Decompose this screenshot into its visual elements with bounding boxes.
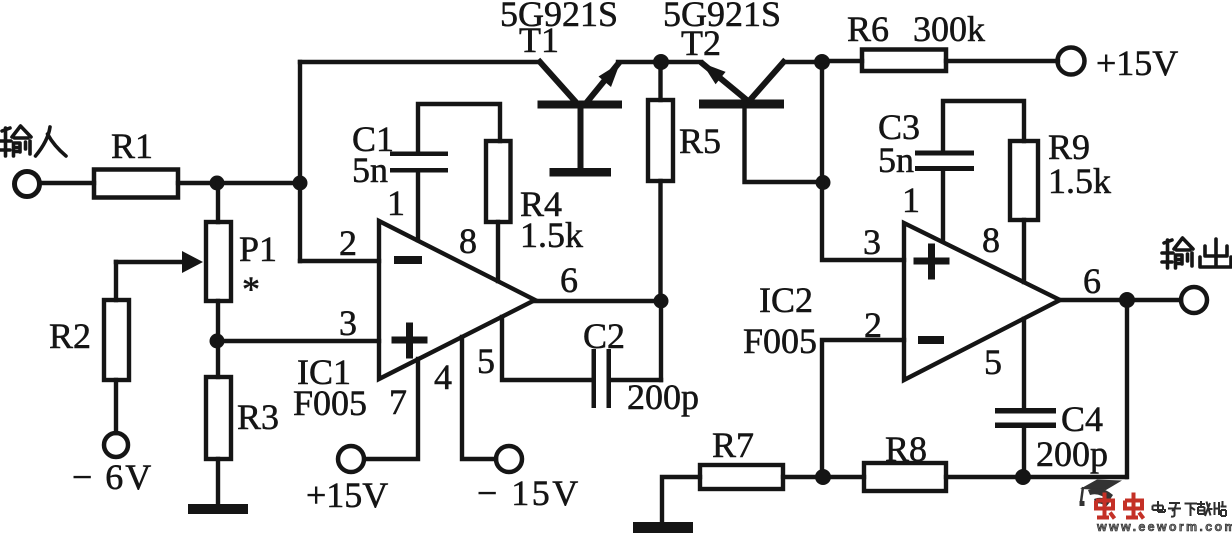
node A junction dot: [210, 176, 225, 191]
resistor R2: [104, 300, 129, 380]
capacitor C1 plates: [390, 152, 448, 157]
wire top rail to T1: [300, 60, 540, 64]
potentiometer P1 wiper arrow: [116, 260, 186, 265]
transistor T2 emitter diagonal with arrow: [703, 64, 748, 101]
svg-text:6: 6: [560, 260, 578, 300]
capacitor C4 plates: [995, 408, 1056, 414]
svg-text:+15V: +15V: [306, 475, 388, 515]
input terminal circle: [15, 172, 40, 197]
transistor T1 collector diagonal: [540, 62, 574, 100]
wire R2 to -6V terminal: [114, 380, 118, 433]
svg-text:R6: R6: [847, 9, 889, 49]
wire IC2 output pin6: [1060, 298, 1181, 302]
node D junction dot (IC1 out): [654, 294, 669, 309]
svg-text:8: 8: [982, 220, 1000, 260]
transistor T2 base bar: [699, 100, 784, 109]
wire C2 left lead to pin5: [502, 317, 592, 380]
resistor R9: [1010, 141, 1038, 220]
svg-text:1.5k: 1.5k: [520, 215, 583, 255]
watermark graduation cap: [1080, 480, 1123, 508]
potentiometer P1: [206, 222, 231, 301]
wire pin3 horizontal: [217, 339, 379, 343]
svg-text:1: 1: [902, 180, 920, 220]
capacitor C3 plates: [915, 151, 974, 156]
node label 输出 (output): [1162, 238, 1231, 268]
svg-text:1.5k: 1.5k: [1048, 161, 1111, 201]
terminal output circle: [1181, 287, 1207, 313]
capacitor C2 plates: [592, 349, 597, 408]
node G junction dot (T2 base): [816, 175, 831, 190]
ground below R3: [188, 504, 248, 514]
wire R3 to ground: [216, 459, 220, 505]
watermark 电子下载站 text: [1153, 501, 1227, 517]
wire pin2 horizontal: [300, 259, 379, 263]
wire pin5 IC2 to C4: [1022, 319, 1026, 409]
wire C4 bottom lead: [1022, 427, 1026, 477]
wire R7 to node I: [783, 475, 864, 479]
svg-text:7: 7: [389, 382, 407, 422]
wire R5 bottom lead: [658, 181, 662, 301]
wire pin2 IC2: [822, 340, 904, 477]
resistor R3: [206, 377, 231, 459]
node F junction dot: [814, 54, 830, 70]
wire C1 to pin1: [416, 172, 420, 240]
op-amp U1 IC1 triangle: [379, 221, 535, 379]
svg-text:www.eeworm.com: www.eeworm.com: [1096, 520, 1232, 533]
wire node E to T2: [661, 60, 701, 64]
node J junction dot (C4/R8): [1015, 469, 1031, 485]
svg-text:3: 3: [339, 303, 357, 343]
node C junction dot: [210, 334, 225, 349]
wire pin7 to +15V: [365, 359, 418, 459]
svg-text:P1: P1: [239, 229, 277, 269]
transistor T1 emitter diagonal with arrow: [587, 64, 618, 102]
wire R9 to pin8 IC2: [1022, 220, 1026, 282]
wire R1 to node B: [178, 181, 302, 185]
resistor R4: [486, 141, 511, 222]
wire R8 to output feedback: [946, 475, 1126, 479]
node label 输入 (input): [0, 126, 66, 156]
resistor R1: [94, 170, 178, 198]
svg-text:IC2: IC2: [759, 280, 813, 320]
terminal -6V circle: [104, 433, 128, 457]
svg-text:F005: F005: [743, 321, 817, 361]
svg-text:4: 4: [434, 357, 452, 397]
wire P1 bottom lead: [216, 301, 220, 341]
svg-text:6: 6: [1083, 261, 1101, 301]
wire R6 to +15V terminal: [946, 59, 1058, 63]
svg-text:− 6V: − 6V: [72, 457, 153, 497]
wire C3 to pin1 IC2: [941, 171, 945, 240]
wire node B vertical to top rail and pin2: [298, 62, 302, 261]
svg-text:R5: R5: [679, 121, 721, 161]
wire node D down to C2: [659, 301, 663, 380]
wire P1 top lead: [216, 183, 220, 222]
svg-text:R8: R8: [885, 429, 927, 469]
resistor R6: [862, 50, 946, 72]
op-amp IC2 plus sign: [917, 247, 946, 276]
node B junction dot: [293, 176, 308, 191]
resistor R7: [700, 465, 783, 489]
resistor R5: [648, 100, 673, 181]
terminal -15V circle (IC1 pin4): [496, 446, 522, 472]
wire wiper to R2: [114, 262, 118, 300]
ground below R7: [633, 522, 693, 533]
wire node F down to pin3 IC2: [822, 62, 904, 260]
resistor R8: [864, 463, 946, 491]
svg-text:300k: 300k: [913, 9, 985, 49]
wire IC1 output pin6: [535, 299, 661, 303]
wire output feedback down: [1125, 300, 1129, 477]
op-amp IC2 minus sign: [918, 336, 944, 344]
terminal +15V circle (right): [1058, 48, 1085, 75]
wire T2 collector to node F: [784, 60, 823, 64]
transistor T1 base lead: [578, 108, 584, 168]
svg-text:5n: 5n: [878, 140, 914, 180]
svg-text:2: 2: [864, 305, 882, 345]
svg-text:R1: R1: [111, 126, 153, 166]
op-amp IC1 minus sign: [394, 256, 422, 264]
svg-text:T1: T1: [519, 20, 559, 60]
capacitor C3 top loop wire: [943, 101, 1024, 151]
op-amp IC1 plus sign: [395, 326, 424, 355]
wire R4 to pin8: [496, 222, 500, 281]
svg-text:C4: C4: [1061, 399, 1103, 439]
wire ground to R7: [662, 477, 700, 521]
svg-text:5: 5: [477, 341, 495, 381]
svg-text:5G921S: 5G921S: [500, 0, 618, 34]
svg-text:5n: 5n: [352, 150, 388, 190]
op-amp U2 IC2 triangle: [904, 223, 1060, 380]
wire node F to R6: [822, 59, 862, 63]
svg-text:T2: T2: [681, 23, 721, 63]
svg-text:2: 2: [339, 223, 357, 263]
svg-text:*: *: [242, 269, 260, 309]
svg-text:+15V: +15V: [1096, 43, 1178, 83]
svg-text:1: 1: [387, 183, 405, 223]
svg-text:− 15V: − 15V: [477, 473, 581, 513]
node E junction dot (emitters/R5): [653, 54, 669, 70]
transistor T1 base termination bar: [550, 168, 612, 177]
terminal +15V circle (IC1 pin7): [338, 446, 364, 472]
transistor T2 base lead: [745, 109, 823, 183]
node H junction dot (output): [1119, 292, 1135, 308]
svg-text:R2: R2: [49, 316, 91, 356]
wire C2 right lead: [611, 378, 661, 382]
wire input to R1: [40, 181, 94, 185]
wire R3 top lead: [216, 341, 220, 377]
node I junction dot: [815, 469, 831, 485]
svg-text:3: 3: [863, 222, 881, 262]
svg-text:C2: C2: [583, 316, 625, 356]
svg-text:F005: F005: [293, 383, 367, 423]
wire T1 emitter to node E: [618, 60, 661, 64]
svg-text:5: 5: [984, 342, 1002, 382]
svg-text:R3: R3: [237, 397, 279, 437]
capacitor C1 top loop wire: [418, 104, 500, 152]
transistor T1 base bar: [538, 101, 623, 109]
wire pin4 to -15V: [462, 337, 496, 459]
transistor T2 collector diagonal: [750, 62, 784, 100]
watermark 虫虫 red logo: [1096, 493, 1144, 519]
wire R5 top lead: [658, 70, 662, 100]
svg-text:R7: R7: [712, 425, 754, 465]
svg-text:8: 8: [459, 221, 477, 261]
svg-text:200p: 200p: [627, 377, 699, 417]
svg-text:200p: 200p: [1036, 434, 1108, 474]
